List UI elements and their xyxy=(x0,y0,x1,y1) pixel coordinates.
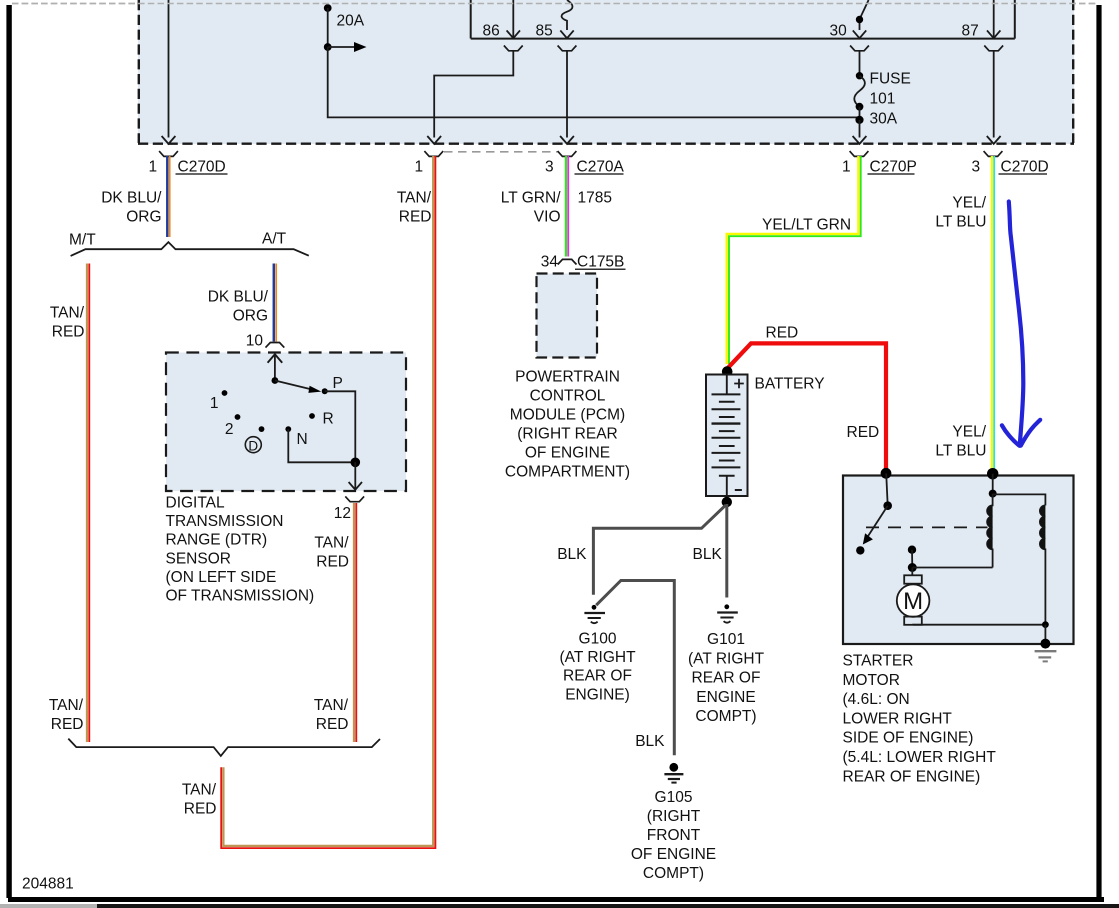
connector C270 pin 1 cup (tan/red) xyxy=(424,151,443,156)
svg-text:C175B: C175B xyxy=(577,254,624,271)
fuse 101 lead to junction xyxy=(859,107,861,120)
svg-text:204881: 204881 xyxy=(22,876,74,893)
fuse 20A top dot xyxy=(324,4,332,12)
svg-text:1785: 1785 xyxy=(578,190,612,207)
motor circle xyxy=(897,584,930,617)
starter switch lead xyxy=(886,473,888,505)
wire from pin 85 to connector xyxy=(566,51,568,138)
top frame dotted line xyxy=(12,3,1096,5)
DTR wire from N contact xyxy=(288,429,355,462)
ground G105 symbol xyxy=(664,763,683,783)
connector C270D pin 3 cup right xyxy=(984,151,1003,156)
battery plus sign xyxy=(734,379,744,389)
connector C270A pin 3 cup xyxy=(558,151,577,156)
hand-drawn blue arrowhead left wing xyxy=(1002,425,1020,446)
DTR label D circled xyxy=(245,437,261,453)
DTR wire from P contact xyxy=(325,391,356,462)
DTR pin 10 connector cap xyxy=(266,343,285,348)
svg-text:RANGE (DTR): RANGE (DTR) xyxy=(166,532,268,549)
relay pin 86 arrowhead xyxy=(507,30,520,38)
svg-text:(RIGHT: (RIGHT xyxy=(647,808,701,825)
fuse 101 bottom dot xyxy=(856,103,864,111)
svg-text:REAR OF ENGINE): REAR OF ENGINE) xyxy=(843,768,981,785)
DTR pin10 internal arrowhead xyxy=(268,354,283,363)
svg-text:MOTOR: MOTOR xyxy=(843,672,900,689)
svg-text:TRANSMISSION: TRANSMISSION xyxy=(166,513,284,530)
svg-text:G100: G100 xyxy=(579,631,617,648)
svg-text:C270P: C270P xyxy=(870,159,917,176)
battery minus sign xyxy=(735,489,742,491)
starter contact dot xyxy=(908,546,916,554)
svg-text:(AT RIGHT: (AT RIGHT xyxy=(559,649,636,666)
svg-text:FUSE: FUSE xyxy=(870,71,911,88)
connector C270D underline xyxy=(176,173,228,175)
svg-text:M: M xyxy=(903,588,923,615)
wire YEL/LT GRN (green part) xyxy=(729,156,861,364)
merge brace lower xyxy=(68,739,380,756)
svg-text:1: 1 xyxy=(842,159,851,176)
svg-text:101: 101 xyxy=(870,91,896,108)
svg-text:M/T: M/T xyxy=(69,232,96,249)
svg-text:DK BLU/: DK BLU/ xyxy=(101,190,162,207)
wire YEL/LT BLU (yellow part) xyxy=(991,156,993,470)
battery bottom stem xyxy=(726,476,728,496)
wire LT GRN/VIO (violet part) xyxy=(567,156,569,257)
pin 85 connector cup xyxy=(558,46,577,51)
relay pin 30 switch blade xyxy=(860,0,869,30)
svg-text:2: 2 xyxy=(225,421,234,438)
wire TAN/RED pin12 (red part) xyxy=(355,503,357,742)
fuse 20A lead xyxy=(327,8,329,47)
connector C270D pin 1 cup xyxy=(159,151,178,156)
svg-text:(ON LEFT SIDE: (ON LEFT SIDE xyxy=(166,569,277,586)
left feed wire from above xyxy=(168,0,170,138)
svg-text:RED: RED xyxy=(316,554,349,571)
DTR contact P dot xyxy=(322,388,328,394)
svg-text:REAR OF: REAR OF xyxy=(563,668,632,685)
DTR pin 12 cup xyxy=(345,496,364,501)
svg-text:ORG: ORG xyxy=(233,308,268,325)
svg-text:LT GRN/: LT GRN/ xyxy=(501,190,561,207)
starter switch pivot dot xyxy=(883,501,892,510)
battery internal stem top xyxy=(726,375,728,394)
svg-text:BLK: BLK xyxy=(635,733,665,750)
svg-text:85: 85 xyxy=(536,23,553,40)
starter terminal dot RED xyxy=(881,468,892,479)
top frame dotted line overlay xyxy=(12,3,1096,5)
svg-text:ENGINE: ENGINE xyxy=(696,689,755,706)
svg-text:SENSOR: SENSOR xyxy=(166,550,231,567)
relay pin 86 lead xyxy=(512,0,514,38)
svg-text:1: 1 xyxy=(415,159,424,176)
motor brush stub xyxy=(911,568,913,576)
frame right bar xyxy=(1096,5,1101,898)
svg-text:YEL/: YEL/ xyxy=(952,424,986,441)
svg-text:TAN/: TAN/ xyxy=(49,697,84,714)
starter case ground symbol xyxy=(1035,651,1057,661)
wire RED from battery xyxy=(728,343,886,471)
pull-in winding coil bumps filled xyxy=(987,505,993,549)
starter motor box xyxy=(843,476,1074,645)
svg-text:COMPT): COMPT) xyxy=(695,708,756,725)
connector C175B cap xyxy=(558,259,577,264)
svg-text:STARTER: STARTER xyxy=(843,653,914,670)
hold-in winding coil bumps filled xyxy=(1040,505,1046,549)
connector C270P underline xyxy=(868,173,915,175)
hold-in winding feed xyxy=(993,494,1046,505)
svg-text:D: D xyxy=(248,439,258,454)
DTR contact D dot xyxy=(259,426,265,432)
solenoid junction dot xyxy=(989,490,997,498)
svg-text:RED: RED xyxy=(399,209,432,226)
starter wire junction to coil bottom xyxy=(912,567,992,569)
svg-text:12: 12 xyxy=(334,505,351,522)
svg-text:20A: 20A xyxy=(337,13,365,30)
battery box xyxy=(706,375,748,497)
power distribution box fill (hot at all times) xyxy=(138,0,1074,144)
svg-text:DIGITAL: DIGITAL xyxy=(166,495,226,512)
svg-text:C270A: C270A xyxy=(577,159,625,176)
wire BLK battery to G100 xyxy=(593,505,725,595)
svg-text:30: 30 xyxy=(830,23,848,40)
power distribution box dashed border xyxy=(138,0,1074,144)
tap arrow to other circuits xyxy=(328,46,356,48)
PCM box xyxy=(537,274,598,358)
svg-text:BLK: BLK xyxy=(557,546,587,563)
svg-text:BATTERY: BATTERY xyxy=(755,376,825,393)
svg-text:RED: RED xyxy=(51,716,84,733)
wire BLK battery to G101 xyxy=(725,504,728,598)
starter terminal dot YEL xyxy=(987,468,998,479)
battery negative junction dot xyxy=(722,497,732,507)
arrowhead into C270D pin3 xyxy=(987,136,1001,144)
svg-text:TAN/: TAN/ xyxy=(314,535,349,552)
frame bottom bar xyxy=(8,897,1104,902)
connector C270D right underline xyxy=(999,173,1048,175)
svg-text:86: 86 xyxy=(483,23,500,40)
hand-drawn blue arrow shaft xyxy=(1009,202,1024,444)
svg-text:COMPT): COMPT) xyxy=(643,865,704,882)
svg-text:BLK: BLK xyxy=(693,546,723,563)
starter contact lead xyxy=(911,550,913,568)
relay coil squiggle above pin 85 xyxy=(562,0,573,30)
DTR output junction dot xyxy=(351,458,361,468)
DTR wiper arrowhead xyxy=(308,386,321,393)
svg-text:1: 1 xyxy=(149,159,158,176)
svg-text:1: 1 xyxy=(210,395,219,412)
svg-text:TAN/: TAN/ xyxy=(314,697,349,714)
frame left bar xyxy=(6,5,11,898)
connector C175B underline xyxy=(575,268,626,270)
battery plates xyxy=(712,394,741,475)
wire DK BLU/ORG A/T branch (blue part) xyxy=(273,264,276,342)
motor output wire xyxy=(913,624,1045,626)
fuse 20A bottom dot xyxy=(324,43,332,51)
bottom strip dark (next frame below) xyxy=(97,904,1119,908)
svg-text:TAN/: TAN/ xyxy=(50,305,85,322)
svg-text:OF TRANSMISSION): OF TRANSMISSION) xyxy=(166,588,315,605)
wire TAN/RED M/T branch (tan part) xyxy=(86,264,88,743)
motor brush bottom rect xyxy=(904,617,922,625)
DTR pin10 internal arrow shaft xyxy=(274,355,276,381)
svg-text:RED: RED xyxy=(184,801,217,818)
svg-text:10: 10 xyxy=(246,333,264,350)
svg-text:RED: RED xyxy=(766,325,799,342)
DTR contact 1 dot xyxy=(222,390,228,396)
svg-text:LT BLU: LT BLU xyxy=(935,443,986,460)
DTR wiper arm xyxy=(275,381,312,390)
starter switch open contact dot xyxy=(856,546,864,554)
svg-text:SIDE OF ENGINE): SIDE OF ENGINE) xyxy=(843,730,974,747)
svg-text:A/T: A/T xyxy=(262,231,287,248)
svg-text:MODULE (PCM): MODULE (PCM) xyxy=(510,407,625,424)
connector C270P pin 1 cup xyxy=(850,151,869,156)
starter mechanical dashed link xyxy=(866,526,988,528)
svg-text:CONTROL: CONTROL xyxy=(530,388,606,405)
wire BLK G100 to G105 xyxy=(596,581,674,756)
starter switch arm xyxy=(867,506,887,538)
svg-text:30A: 30A xyxy=(870,111,898,128)
svg-text:ENGINE): ENGINE) xyxy=(565,686,630,703)
svg-text:C270D: C270D xyxy=(178,159,226,176)
svg-text:FRONT: FRONT xyxy=(647,827,701,844)
svg-text:DK BLU/: DK BLU/ xyxy=(208,289,269,306)
svg-text:P: P xyxy=(333,375,343,392)
svg-text:G101: G101 xyxy=(707,631,745,648)
starter ground dot xyxy=(1040,639,1050,649)
svg-text:R: R xyxy=(323,411,334,428)
relay pin 30 pivot dot xyxy=(856,16,863,23)
svg-text:OF ENGINE: OF ENGINE xyxy=(631,846,716,863)
wire YEL/LT GRN (yellow part) xyxy=(727,156,859,364)
wire from pin 86 to connector xyxy=(434,51,513,138)
DTR sensor box xyxy=(166,353,406,492)
svg-text:YEL/LT GRN: YEL/LT GRN xyxy=(762,217,851,234)
svg-text:ORG: ORG xyxy=(126,209,161,226)
starter switch arm arrowhead xyxy=(863,533,873,544)
wire pin30 to fuse101 xyxy=(859,51,861,76)
DTR wiper pivot dot xyxy=(272,377,279,384)
svg-text:TAN/: TAN/ xyxy=(182,782,217,799)
starter motor junction dot xyxy=(908,563,917,572)
wire DK BLU/ORG A/T branch (orange part) xyxy=(275,264,277,342)
wire TAN/RED pin12 (tan part) xyxy=(353,503,355,742)
svg-text:RED: RED xyxy=(316,716,349,733)
svg-text:OF ENGINE: OF ENGINE xyxy=(525,445,610,462)
svg-text:(RIGHT REAR: (RIGHT REAR xyxy=(517,426,617,443)
starter relay outline xyxy=(471,0,1015,39)
hold-in winding coil xyxy=(1040,505,1046,624)
wire from 20A fuse down xyxy=(328,47,860,117)
svg-text:REAR OF: REAR OF xyxy=(692,670,761,687)
pin 87 connector cup xyxy=(984,46,1003,51)
tap arrowhead xyxy=(354,42,367,52)
svg-text:RED: RED xyxy=(52,324,85,341)
svg-text:YEL/: YEL/ xyxy=(952,195,986,212)
junction dot 30A feed xyxy=(855,116,863,124)
fuse 101 squiggle xyxy=(854,76,865,107)
pin 86 connector cup xyxy=(504,46,523,51)
svg-text:34: 34 xyxy=(541,254,559,271)
svg-text:RED: RED xyxy=(847,424,880,441)
DTR output arrowhead xyxy=(349,482,362,490)
M/T A/T split brace xyxy=(71,242,309,256)
fuse 101 top dot xyxy=(856,72,863,79)
wire fuse101 to connector C270P xyxy=(859,120,861,138)
svg-text:87: 87 xyxy=(962,23,979,40)
long wire TAN/RED from C270 pin1 (red part) xyxy=(221,156,435,848)
connector C270A underline xyxy=(575,173,624,175)
arrowhead into C270P pin1 xyxy=(853,136,867,144)
pin 30 connector cup xyxy=(850,46,869,51)
svg-text:(AT RIGHT: (AT RIGHT xyxy=(688,650,765,667)
svg-text:POWERTRAIN: POWERTRAIN xyxy=(515,369,620,386)
wire pin 87 to connector xyxy=(993,51,995,138)
wire TAN/RED M/T branch (red part) xyxy=(88,264,90,743)
DTR contact R dot xyxy=(309,413,315,419)
svg-text:N: N xyxy=(297,431,308,448)
battery positive junction dot xyxy=(722,366,733,377)
svg-text:TAN/: TAN/ xyxy=(397,190,432,207)
solenoid feed from YEL terminal xyxy=(992,474,994,494)
arrowhead into C270D pin1 left xyxy=(162,136,176,144)
connector housing gray dashed line xyxy=(444,151,558,153)
wire DK BLU/ORG from C270D pin1 (blue part) xyxy=(166,156,169,237)
svg-text:VIO: VIO xyxy=(534,209,561,226)
svg-text:3: 3 xyxy=(545,159,554,176)
ground G101 symbol xyxy=(717,604,738,622)
long wire TAN/RED from C270 pin1 (tan part) xyxy=(223,156,433,846)
arrowhead into C270 pin1 xyxy=(427,136,441,144)
DTR contact 2 dot xyxy=(235,414,241,420)
wire DK BLU/ORG from C270D pin1 (orange part) xyxy=(169,156,171,237)
relay pin 87 lead xyxy=(993,0,995,38)
svg-text:(4.6L: ON: (4.6L: ON xyxy=(843,691,910,708)
relay pin 87 arrowhead xyxy=(987,30,1000,38)
relay pin 85 arrowhead xyxy=(560,30,573,38)
wire LT GRN/VIO (green part) xyxy=(565,156,567,257)
DTR contact N dot xyxy=(285,426,291,432)
bottom strip gray xyxy=(0,904,97,908)
hand-drawn blue arrowhead right wing xyxy=(1021,420,1040,446)
svg-text:COMPARTMENT): COMPARTMENT) xyxy=(505,464,630,481)
relay pin 30 arrowhead xyxy=(853,30,866,38)
wire YEL/LT BLU (light blue part) xyxy=(993,156,995,470)
svg-text:(5.4L: LOWER RIGHT: (5.4L: LOWER RIGHT xyxy=(843,749,997,766)
svg-text:G105: G105 xyxy=(655,789,693,806)
motor brush top rect xyxy=(904,575,922,583)
svg-text:C270D: C270D xyxy=(1001,159,1049,176)
DTR output arrow shaft xyxy=(354,462,356,488)
motor output junction dot xyxy=(1042,621,1049,628)
pull-in winding coil xyxy=(987,494,993,568)
svg-text:3: 3 xyxy=(972,159,981,176)
starter ground lead xyxy=(1044,625,1046,644)
ground G100 symbol xyxy=(584,605,605,623)
svg-text:LT BLU: LT BLU xyxy=(935,214,986,231)
arrowhead into C270A pin3 xyxy=(560,136,574,144)
svg-text:LOWER RIGHT: LOWER RIGHT xyxy=(843,710,953,727)
